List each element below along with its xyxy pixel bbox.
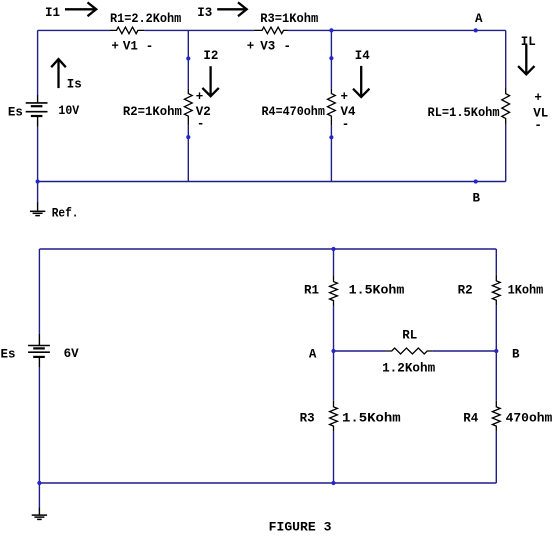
svg-text:R4: R4 xyxy=(463,411,479,425)
svg-text:R3: R3 xyxy=(300,411,315,425)
svg-text:6V: 6V xyxy=(64,347,80,361)
svg-text:RL=1.5Kohm: RL=1.5Kohm xyxy=(428,106,501,120)
svg-text:I2: I2 xyxy=(203,49,218,63)
svg-text:-: - xyxy=(342,118,350,132)
svg-text:A: A xyxy=(309,347,317,361)
svg-text:I1: I1 xyxy=(45,6,60,20)
svg-text:-: - xyxy=(146,40,154,54)
svg-text:R2: R2 xyxy=(458,283,473,297)
svg-text:-: - xyxy=(284,40,292,54)
svg-text:+: + xyxy=(247,40,255,54)
svg-text:Ref.: Ref. xyxy=(52,206,79,220)
svg-text:V3: V3 xyxy=(260,40,275,54)
svg-text:I4: I4 xyxy=(355,49,371,63)
svg-text:1Kohm: 1Kohm xyxy=(508,283,544,297)
svg-text:R3=1Kohm: R3=1Kohm xyxy=(260,12,319,26)
svg-text:R4=470ohm: R4=470ohm xyxy=(262,105,326,119)
svg-text:-: - xyxy=(197,117,205,131)
svg-text:+: + xyxy=(111,40,119,54)
svg-text:10V: 10V xyxy=(58,104,79,118)
svg-text:FIGURE 3: FIGURE 3 xyxy=(269,520,332,534)
svg-text:Es: Es xyxy=(8,106,23,120)
svg-text:Is: Is xyxy=(67,78,82,92)
svg-text:+: + xyxy=(534,91,542,105)
svg-text:R1: R1 xyxy=(304,283,319,297)
svg-text:B: B xyxy=(512,347,520,361)
svg-text:IL: IL xyxy=(521,35,536,49)
svg-text:A: A xyxy=(475,12,483,26)
svg-text:RL: RL xyxy=(402,329,417,343)
svg-text:470ohm: 470ohm xyxy=(506,411,553,425)
svg-text:+: + xyxy=(196,90,204,104)
svg-text:1.5Kohm: 1.5Kohm xyxy=(342,411,401,425)
svg-text:-: - xyxy=(534,119,542,133)
svg-text:+: + xyxy=(341,90,349,104)
svg-text:1.5Kohm: 1.5Kohm xyxy=(349,283,405,297)
svg-text:R1=2.2Kohm: R1=2.2Kohm xyxy=(110,12,182,26)
svg-text:1.2Kohm: 1.2Kohm xyxy=(382,362,436,376)
svg-text:I3: I3 xyxy=(197,6,212,20)
svg-text:R2=1Kohm: R2=1Kohm xyxy=(123,105,182,119)
svg-text:B: B xyxy=(473,191,481,205)
svg-text:Es: Es xyxy=(1,347,16,361)
svg-text:V1: V1 xyxy=(123,40,138,54)
